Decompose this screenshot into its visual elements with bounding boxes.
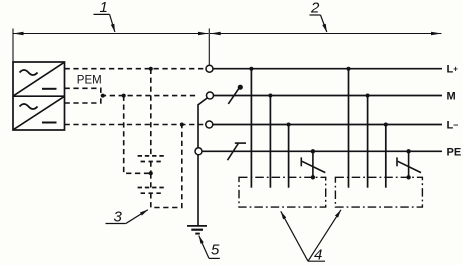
node drop 1c xyxy=(287,123,291,127)
wire PE terminal to earth xyxy=(197,155,199,225)
break blade on PE link 2 xyxy=(398,161,421,172)
bus L- xyxy=(213,124,442,126)
label 4 leader to box 4a xyxy=(281,211,308,261)
terminal L+ xyxy=(206,65,213,72)
node PE link 1 top xyxy=(311,149,315,153)
capacitor C1 bottom plate xyxy=(141,161,161,163)
label 3 leader xyxy=(126,210,148,224)
svg-text:L+: L+ xyxy=(447,64,459,76)
wire L- dashed from converter to terminal xyxy=(65,124,206,126)
equipment box 4b (dash-dot) xyxy=(335,177,422,207)
label 1 leader xyxy=(110,14,115,32)
label 4 leader to box 4b xyxy=(308,210,341,261)
wire M drop to midpoint xyxy=(124,96,151,174)
capacitor C2 bottom plate xyxy=(141,192,161,194)
node PE link 2 bottom xyxy=(406,175,410,179)
dimension arrow mid-left xyxy=(198,32,209,36)
node drop 1a xyxy=(249,67,253,71)
wire converter mid-bottom to bracket xyxy=(65,96,101,103)
svg-text:1: 1 xyxy=(100,0,108,16)
node L+ tap xyxy=(149,67,153,71)
label 5 underline xyxy=(209,257,220,259)
capacitor C1 top plate xyxy=(138,155,164,157)
load drop 1a from L+ xyxy=(250,69,252,188)
converter cell1 AC tilde xyxy=(20,70,38,75)
extension line middle (above L+ terminal) xyxy=(208,29,210,65)
load drop 1b from M xyxy=(269,96,271,188)
svg-text:M: M xyxy=(447,91,456,103)
converter cell1 diagonal xyxy=(13,62,64,95)
load drop 2c from L- xyxy=(385,125,387,188)
break stroke on PE bus xyxy=(228,144,239,161)
break blade on PE link 1 xyxy=(302,161,325,172)
PE link to box 1 xyxy=(312,151,314,177)
dimension line 2 (span 2) xyxy=(210,33,442,35)
label 3 underline xyxy=(106,223,126,225)
svg-text:2: 2 xyxy=(310,0,320,17)
node PE link 1 bottom xyxy=(311,175,315,179)
ground electrode bar 1 xyxy=(187,225,207,227)
wire C1 to midpoint xyxy=(150,162,152,174)
capacitor C2 top plate xyxy=(138,187,164,189)
load drop 2b from M xyxy=(367,96,369,188)
label 2 leader xyxy=(321,15,327,32)
terminal PE xyxy=(195,148,202,155)
node PE link 2 top xyxy=(406,149,410,153)
dimension arrow left xyxy=(13,32,24,36)
node M tap xyxy=(122,94,126,98)
node capacitor midpoint xyxy=(149,171,153,175)
label 1 underline xyxy=(94,13,110,15)
wire L+ dashed from converter to terminal xyxy=(65,68,206,70)
bus M xyxy=(214,95,443,97)
wire M terminal to PE terminal (earthing link) xyxy=(198,98,207,148)
wire M dashed to terminal xyxy=(101,95,196,97)
equipment box 4a (dash-dot) xyxy=(239,177,326,207)
node PEM junction xyxy=(101,94,105,98)
node drop 2c xyxy=(384,123,388,127)
dimension line 1 (span 1) xyxy=(13,33,209,35)
PE link to box 2 xyxy=(408,151,410,177)
extension line left (at converter box left edge) xyxy=(12,29,14,63)
svg-text:PE: PE xyxy=(447,146,462,158)
label 2 underline xyxy=(310,14,321,16)
svg-text:PEM: PEM xyxy=(77,75,102,87)
wire converter mid-top to bracket xyxy=(65,88,101,95)
fault dot on M bus xyxy=(238,85,243,90)
node drop 2a xyxy=(347,67,351,71)
converter cell2 DC bar xyxy=(42,122,57,124)
dimension arrow right xyxy=(431,32,442,36)
break tick on PE link 1 xyxy=(300,157,302,166)
node drop 2b xyxy=(366,94,370,98)
converter divider xyxy=(13,95,65,97)
ground electrode bar 3 xyxy=(195,233,200,235)
break tick on PE link 2 xyxy=(396,157,398,166)
wire L+ drop to capacitor C1 xyxy=(150,69,152,156)
ground electrode bar 2 xyxy=(191,229,203,231)
break tick on PE bus xyxy=(235,142,246,144)
node L- tap xyxy=(180,123,184,127)
svg-text:L–: L– xyxy=(447,120,459,132)
wire midpoint to capacitor C2 xyxy=(150,173,152,187)
converter cell2 diagonal xyxy=(13,97,64,130)
load drop 1c from L- xyxy=(288,125,290,188)
dimension arrow mid-right xyxy=(210,32,221,36)
load drop 2a from L+ xyxy=(348,69,350,188)
bus L+ xyxy=(213,68,442,70)
fault stroke on M bus xyxy=(228,88,239,104)
converter unit U (outer box) xyxy=(13,62,65,130)
svg-text:5: 5 xyxy=(211,242,220,259)
label 4 underline xyxy=(308,260,325,262)
node drop 1b xyxy=(268,94,272,98)
terminal L- xyxy=(206,121,213,128)
wire C2 to L- riser xyxy=(151,125,182,208)
converter cell2 AC tilde xyxy=(20,104,38,109)
terminal M xyxy=(207,92,214,99)
converter cell1 DC bar xyxy=(42,88,57,90)
bus PE xyxy=(202,150,442,152)
label 5 leader xyxy=(199,236,209,259)
